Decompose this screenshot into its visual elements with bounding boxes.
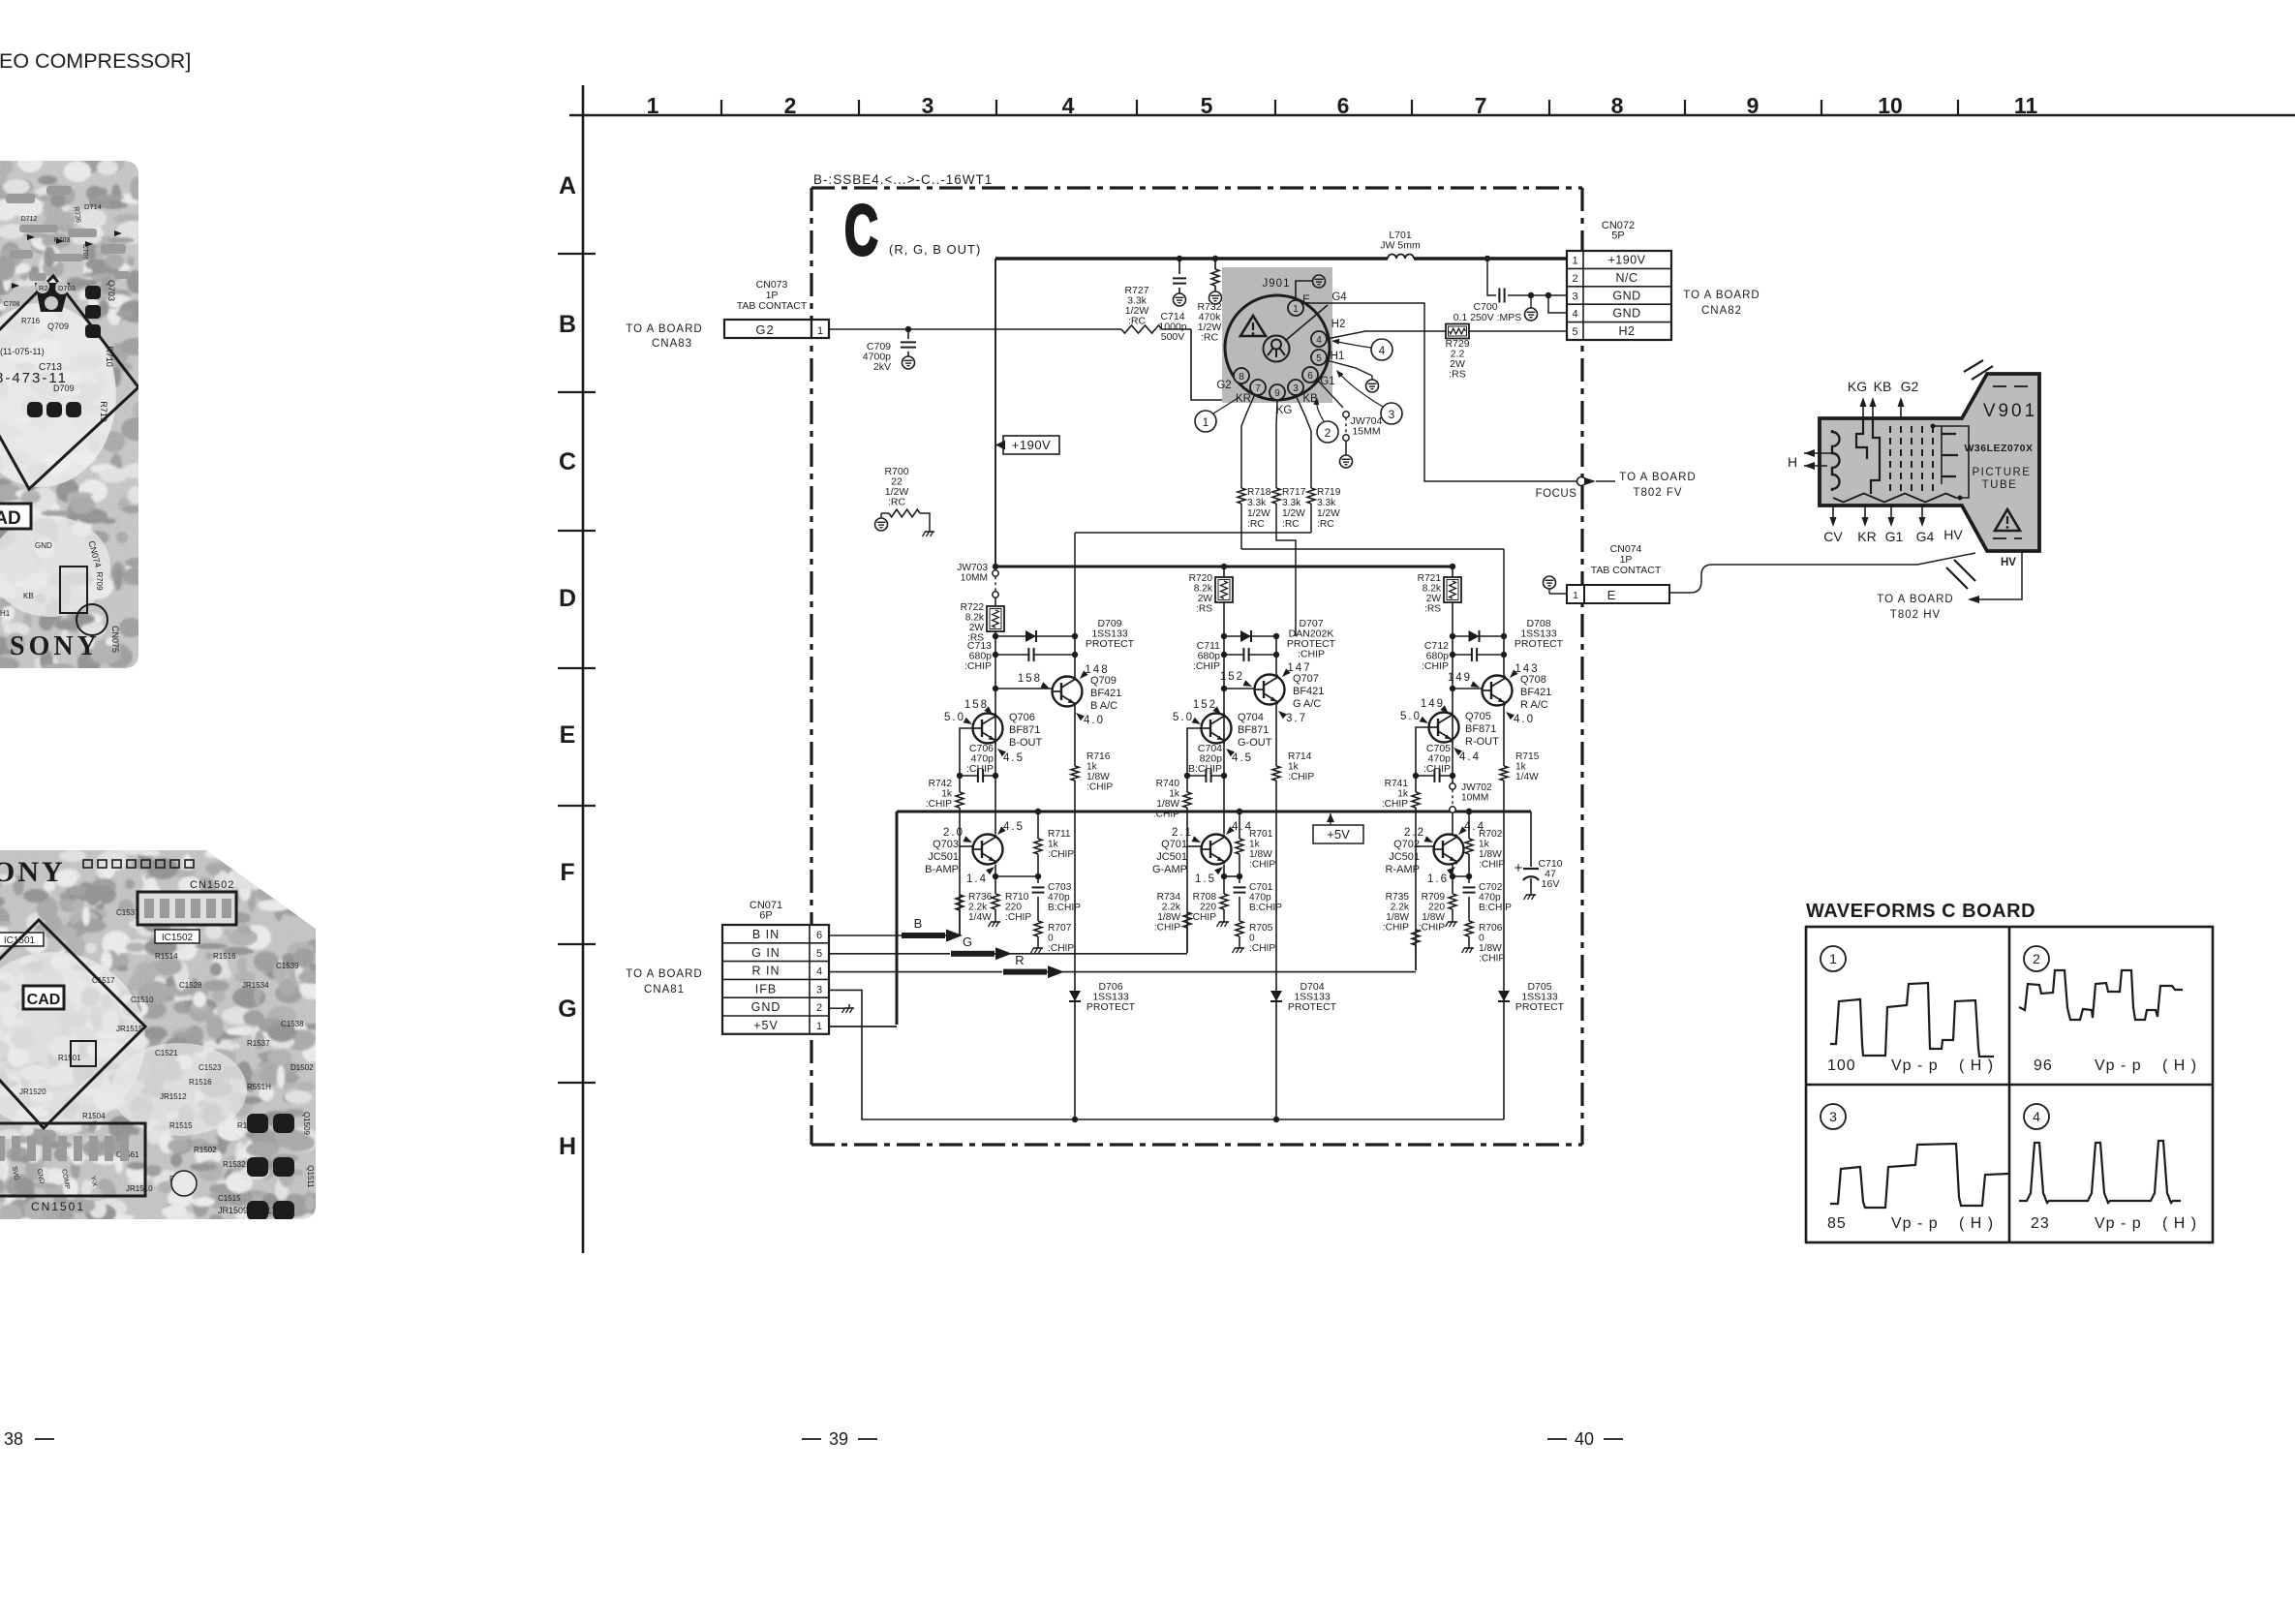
svg-text:1/4W: 1/4W xyxy=(1515,772,1539,782)
svg-text:G-OUT: G-OUT xyxy=(1238,737,1272,749)
CRT socket J901 xyxy=(1222,267,1332,403)
svg-text::CHIP: :CHIP xyxy=(1249,943,1275,954)
svg-text:TO A BOARD: TO A BOARD xyxy=(626,323,702,335)
jumper JW702 xyxy=(1450,782,1492,812)
svg-text:C702: C702 xyxy=(1479,882,1503,893)
svg-text:FOCUS: FOCUS xyxy=(1536,488,1577,500)
svg-text:R719: R719 xyxy=(99,401,108,422)
node on bus at C714 xyxy=(1177,256,1182,261)
svg-text:1: 1 xyxy=(1203,415,1209,429)
pin label KB xyxy=(1302,393,1318,405)
svg-text:16V: 16V xyxy=(1542,878,1560,890)
svg-text:R722: R722 xyxy=(961,602,985,613)
pin label H2 xyxy=(1331,319,1346,330)
svg-text:R242 D703: R242 D703 xyxy=(39,284,76,292)
resistor R721 xyxy=(1418,567,1461,636)
resistor R715 xyxy=(1500,751,1540,782)
svg-text:8.2k: 8.2k xyxy=(965,613,985,624)
svg-text::CHIP: :CHIP xyxy=(1193,660,1220,672)
svg-text:0: 0 xyxy=(1048,934,1054,944)
wire: B IN signal xyxy=(829,916,963,942)
svg-text:2.0: 2.0 xyxy=(943,827,964,839)
svg-text:5.0: 5.0 xyxy=(1400,711,1422,722)
board C outline (dash-dot border) xyxy=(811,188,1582,1145)
waveform cell 4 marker xyxy=(2024,1104,2049,1129)
wire: Q703 base lead xyxy=(960,846,973,935)
resistor R709 xyxy=(1419,876,1457,934)
svg-text:148: 148 xyxy=(1085,664,1109,676)
svg-text:2: 2 xyxy=(1572,273,1577,285)
svg-text:R706: R706 xyxy=(1479,923,1503,934)
svg-text::RC: :RC xyxy=(1317,519,1334,530)
page title text [VIDEO COMPRESSOR] xyxy=(0,49,191,73)
svg-text:4: 4 xyxy=(1379,344,1386,357)
resistor R722 xyxy=(961,598,1004,644)
wire: Q702 emitter to sub column xyxy=(1450,865,1472,879)
svg-text:KG: KG xyxy=(1848,379,1867,394)
svg-text:TO A BOARD: TO A BOARD xyxy=(1683,290,1759,301)
svg-text:R1515: R1515 xyxy=(169,1121,193,1130)
resistor R702 xyxy=(1465,809,1505,876)
svg-text:CNA82: CNA82 xyxy=(1701,305,1742,317)
svg-text:152: 152 xyxy=(1220,671,1244,683)
svg-text:G: G xyxy=(558,996,576,1023)
svg-text:R1504: R1504 xyxy=(82,1112,106,1120)
svg-text:3: 3 xyxy=(1293,383,1299,394)
svg-text:C1528: C1528 xyxy=(179,981,202,990)
svg-text:G IN: G IN xyxy=(751,946,780,960)
svg-text:C701: C701 xyxy=(1249,882,1273,893)
svg-text:CN1502: CN1502 xyxy=(190,879,234,891)
svg-text:JW 5mm: JW 5mm xyxy=(1380,240,1421,252)
svg-text:8-473-11: 8-473-11 xyxy=(0,370,68,386)
svg-text:10MM: 10MM xyxy=(1461,793,1488,804)
wire KR from socket pin 7 xyxy=(1241,394,1255,485)
svg-text:1k: 1k xyxy=(1048,840,1059,850)
svg-text:H: H xyxy=(1788,454,1797,470)
wire H1 to ground xyxy=(1327,360,1379,392)
svg-text:JW702: JW702 xyxy=(1461,782,1492,793)
svg-text::CHIP: :CHIP xyxy=(1382,799,1408,810)
svg-text:IC1502: IC1502 xyxy=(162,933,194,943)
svg-text:(11-075-11): (11-075-11) xyxy=(0,347,45,356)
resistor R720 xyxy=(1189,567,1233,636)
net label +190V xyxy=(995,436,1059,454)
key pointer line to pin 1 xyxy=(1285,305,1328,341)
svg-text:(R, G, B OUT): (R, G, B OUT) xyxy=(889,242,981,257)
svg-text:0: 0 xyxy=(1249,934,1255,944)
svg-text:3.7: 3.7 xyxy=(1286,713,1307,724)
svg-text::CHIP: :CHIP xyxy=(966,763,994,775)
svg-text::CHIP: :CHIP xyxy=(926,799,952,810)
picture tube V901 xyxy=(1788,360,2039,589)
resistor R707 xyxy=(1031,921,1075,954)
svg-text:1/8W: 1/8W xyxy=(1156,799,1179,810)
capacitor C706 xyxy=(957,743,998,782)
svg-text::RC: :RC xyxy=(1247,519,1265,530)
wire: G4 to FOCUS (T802 FV) xyxy=(1303,303,1576,481)
svg-text:C708: C708 xyxy=(4,301,20,308)
capacitor C703 xyxy=(1032,876,1082,921)
svg-text:Q705: Q705 xyxy=(1465,711,1491,722)
svg-text:1k: 1k xyxy=(1397,789,1409,800)
svg-text:8: 8 xyxy=(1611,93,1624,118)
svg-text:85: 85 xyxy=(1827,1215,1847,1232)
svg-text:B-:SSBE4.<...>-C..-16WT1: B-:SSBE4.<...>-C..-16WT1 xyxy=(813,172,993,187)
transistor Q708 xyxy=(1448,663,1552,725)
resistor R732 xyxy=(1197,259,1221,344)
svg-text:2kV: 2kV xyxy=(873,361,891,373)
svg-text:C1521: C1521 xyxy=(155,1049,178,1057)
svg-text:CAD: CAD xyxy=(27,992,61,1008)
svg-text:0.1 250V :MPS: 0.1 250V :MPS xyxy=(1453,312,1522,323)
svg-text:BF421: BF421 xyxy=(1293,686,1324,697)
svg-text:1/2W: 1/2W xyxy=(1247,508,1270,519)
svg-text::CHIP: :CHIP xyxy=(1048,849,1074,860)
svg-text:C703: C703 xyxy=(1048,882,1072,893)
svg-text:R717: R717 xyxy=(1282,487,1306,498)
svg-text:470p: 470p xyxy=(1249,893,1271,904)
svg-text:6P: 6P xyxy=(759,910,772,922)
test point circle 4 xyxy=(1331,338,1392,360)
svg-text:Q1511: Q1511 xyxy=(306,1165,315,1188)
svg-text:4: 4 xyxy=(816,966,822,978)
svg-text:4.4: 4.4 xyxy=(1459,751,1481,763)
svg-text:R-OUT: R-OUT xyxy=(1465,736,1499,748)
svg-text:( H ): ( H ) xyxy=(2162,1215,2197,1232)
svg-text:6: 6 xyxy=(816,930,822,941)
resistor R701 xyxy=(1236,809,1275,876)
svg-text:4: 4 xyxy=(1572,309,1577,321)
svg-text:R716: R716 xyxy=(21,317,41,325)
resistor R717 xyxy=(1272,485,1306,533)
svg-text:Vp - p: Vp - p xyxy=(1891,1215,1939,1232)
svg-text:470p: 470p xyxy=(1048,893,1070,904)
connector CN073 G2 box xyxy=(724,320,829,338)
diode D707 xyxy=(1221,618,1336,660)
resistor R700 xyxy=(875,466,935,536)
svg-text:158: 158 xyxy=(964,699,989,711)
svg-text:B:CHIP: B:CHIP xyxy=(1188,763,1222,775)
waveform 2 trace xyxy=(2019,970,2183,1020)
svg-text:H2: H2 xyxy=(1619,324,1636,338)
svg-text:2: 2 xyxy=(784,93,797,118)
svg-text:500V: 500V xyxy=(1161,331,1185,343)
svg-text:JW703: JW703 xyxy=(957,563,988,573)
resistor R742 xyxy=(926,776,964,846)
svg-text:2.2k: 2.2k xyxy=(968,903,988,913)
svg-text:TO A BOARD: TO A BOARD xyxy=(626,968,702,980)
svg-text:R702: R702 xyxy=(1479,829,1503,840)
svg-text:4: 4 xyxy=(1062,93,1075,118)
svg-text:1/4W: 1/4W xyxy=(968,912,992,923)
PCB photo 2 (bottom-left board photograph) xyxy=(0,841,329,1346)
svg-text:5: 5 xyxy=(1201,93,1213,118)
board code text B-:SSBE4 xyxy=(813,172,993,187)
svg-text:TAB CONTACT: TAB CONTACT xyxy=(737,300,808,312)
page number 38 xyxy=(4,1429,54,1449)
svg-text::CHIP: :CHIP xyxy=(1479,860,1505,871)
svg-text:1: 1 xyxy=(647,93,659,118)
svg-text:T802 FV: T802 FV xyxy=(1633,487,1682,499)
svg-text:1k: 1k xyxy=(1288,762,1300,773)
waveform 3 trace xyxy=(1830,1144,2008,1208)
svg-text:10MM: 10MM xyxy=(961,573,988,584)
svg-text:C1539: C1539 xyxy=(276,962,299,970)
svg-text:KR: KR xyxy=(1236,393,1251,405)
svg-text:+5V: +5V xyxy=(753,1019,779,1032)
svg-text:W36LEZ070X: W36LEZ070X xyxy=(1965,443,2034,454)
svg-text:8.2k: 8.2k xyxy=(1194,584,1213,595)
svg-text::CHIP: :CHIP xyxy=(1423,763,1451,775)
svg-text:BF421: BF421 xyxy=(1090,688,1121,699)
svg-text:15MM: 15MM xyxy=(1352,426,1380,438)
wire: 190V feed line (y585) xyxy=(993,564,1455,569)
svg-text:TAB CONTACT: TAB CONTACT xyxy=(1591,565,1662,576)
svg-text:2: 2 xyxy=(2033,951,2040,966)
svg-text:3.3k: 3.3k xyxy=(1282,498,1301,508)
svg-text:8: 8 xyxy=(1239,372,1244,383)
svg-text:4: 4 xyxy=(1316,335,1322,346)
svg-text:E: E xyxy=(1607,588,1616,602)
svg-text:PROTECT: PROTECT xyxy=(1515,1001,1565,1013)
svg-text::RC: :RC xyxy=(1282,519,1300,530)
svg-text:Q703: Q703 xyxy=(107,280,116,301)
diode D706 xyxy=(1069,981,1136,1119)
svg-text:GND: GND xyxy=(1612,289,1640,302)
jumper JW703 xyxy=(957,563,998,598)
resistor R729 xyxy=(1445,324,1469,381)
waveform 3 value 85 Vp-p (H) xyxy=(1827,1215,1994,1232)
svg-text:SONY: SONY xyxy=(10,631,101,661)
svg-text:B: B xyxy=(559,311,576,338)
svg-text:PROTECT: PROTECT xyxy=(1515,638,1564,650)
svg-text:10: 10 xyxy=(1878,93,1903,118)
svg-text:F: F xyxy=(560,859,574,886)
svg-text:( H ): ( H ) xyxy=(1959,1057,1994,1074)
wire: KG feed line xyxy=(1276,533,1296,636)
svg-text:PROTECT: PROTECT xyxy=(1288,1001,1337,1013)
svg-text:CV: CV xyxy=(1823,529,1843,544)
wire: R column right vertical xyxy=(1503,636,1505,986)
wire: R IN signal xyxy=(829,953,1416,978)
capacitor C700 xyxy=(1453,259,1567,323)
svg-text:C1537: C1537 xyxy=(116,908,139,917)
svg-text:152: 152 xyxy=(1193,699,1217,711)
svg-text:1.5: 1.5 xyxy=(1195,873,1216,885)
svg-text:GND: GND xyxy=(751,1000,781,1014)
svg-text:+190V: +190V xyxy=(1608,254,1646,267)
CRT socket pin 6 xyxy=(1302,367,1318,383)
node on bus at 1536 xyxy=(1484,256,1490,261)
svg-text:G2: G2 xyxy=(755,322,774,337)
wire: CN074 to picture tube xyxy=(1669,553,1975,593)
svg-text:B A/C: B A/C xyxy=(1090,700,1117,712)
svg-text:23: 23 xyxy=(2031,1215,2050,1232)
svg-text:C706: C706 xyxy=(81,244,88,260)
svg-text:G2: G2 xyxy=(1216,380,1231,391)
svg-text:N/C: N/C xyxy=(1615,271,1637,285)
svg-text:JR1520: JR1520 xyxy=(19,1088,46,1096)
wire: Q702 base lead xyxy=(1416,846,1434,970)
svg-text:3: 3 xyxy=(816,984,822,996)
svg-text:D1502: D1502 xyxy=(291,1063,314,1072)
svg-text:7: 7 xyxy=(1475,93,1487,118)
page number 39 xyxy=(802,1429,877,1449)
svg-text:11: 11 xyxy=(2014,93,2038,118)
ground at C700 (MPS) xyxy=(1525,295,1538,321)
capacitor C710 xyxy=(1515,812,1563,900)
svg-text:HV: HV xyxy=(1943,527,1963,542)
inductor L701 xyxy=(1380,230,1421,259)
svg-text:H1: H1 xyxy=(1331,351,1345,362)
svg-text::CHIP: :CHIP xyxy=(1190,912,1216,923)
svg-text:149: 149 xyxy=(1421,698,1445,710)
svg-text:R1537: R1537 xyxy=(247,1039,270,1048)
node FOCUS terminal xyxy=(1536,477,1586,501)
waveform 2 value 96 Vp-p (H) xyxy=(2034,1057,2197,1074)
svg-text:D712: D712 xyxy=(21,216,38,223)
svg-text:CN075: CN075 xyxy=(110,626,120,653)
jumper JW704 xyxy=(1317,380,1382,468)
svg-text:JR1509 C1517: JR1509 C1517 xyxy=(218,1206,276,1215)
svg-text:C1538: C1538 xyxy=(281,1020,304,1028)
CRT socket pin 1 xyxy=(1288,300,1303,316)
waveform 1 value 100 Vp-p (H) xyxy=(1827,1057,1994,1074)
svg-text:D714: D714 xyxy=(84,202,102,211)
svg-text:220: 220 xyxy=(1428,903,1445,913)
resistor R716 xyxy=(1071,751,1113,793)
svg-text:1/2W: 1/2W xyxy=(1282,508,1305,519)
CRT socket pin 5 xyxy=(1311,350,1327,365)
svg-text::RS: :RS xyxy=(1449,369,1466,381)
node label TO A BOARD CNA83 xyxy=(626,323,702,350)
svg-text:1/8W: 1/8W xyxy=(1479,943,1502,954)
svg-text:R720: R720 xyxy=(1189,573,1213,584)
node label TO A BOARD CNA81 xyxy=(626,968,702,996)
diode D709 xyxy=(993,618,1135,650)
svg-text:R IN: R IN xyxy=(752,965,780,978)
svg-text:3: 3 xyxy=(922,93,934,118)
connector CN073 label xyxy=(737,279,808,312)
svg-text:4: 4 xyxy=(2033,1109,2040,1124)
resistor R718 xyxy=(1238,485,1271,549)
resistor R714 xyxy=(1272,751,1314,782)
waveform cell 3 marker xyxy=(1821,1104,1846,1129)
svg-text:158: 158 xyxy=(1018,673,1042,685)
wire: Q705 base feedback xyxy=(1416,727,1429,776)
waveforms table title xyxy=(1806,901,2035,922)
resistor R727 xyxy=(1121,285,1162,333)
svg-text:R1532: R1532 xyxy=(223,1160,246,1169)
svg-text:R735: R735 xyxy=(1386,892,1410,903)
pin label KG xyxy=(1276,405,1293,416)
svg-text:B:CHIP: B:CHIP xyxy=(1479,903,1512,913)
CRT socket pin 3 xyxy=(1288,380,1303,395)
svg-text:R1501: R1501 xyxy=(58,1054,81,1062)
wire: Q706 base feedback xyxy=(960,728,973,776)
wire: KR feed line (y567) xyxy=(1241,549,1504,636)
svg-text:220: 220 xyxy=(1005,903,1022,913)
svg-text:5: 5 xyxy=(816,948,822,960)
svg-text:G4: G4 xyxy=(1916,529,1935,544)
connector CN072 xyxy=(1567,251,1671,340)
resistor R735 xyxy=(1383,892,1420,970)
svg-text:G1: G1 xyxy=(1885,529,1904,544)
transistor Q706 xyxy=(944,699,1043,764)
svg-text:D: D xyxy=(559,585,576,612)
svg-text:R1514: R1514 xyxy=(155,952,178,961)
svg-text:Q703: Q703 xyxy=(933,839,959,850)
svg-text:TO A BOARD: TO A BOARD xyxy=(1619,472,1696,483)
svg-text::CHIP: :CHIP xyxy=(1048,943,1074,954)
svg-text:GND: GND xyxy=(1612,307,1640,321)
svg-text:R715: R715 xyxy=(1515,751,1540,762)
svg-text:1/8W: 1/8W xyxy=(1249,849,1272,860)
transistor Q705 xyxy=(1400,698,1499,763)
svg-text:KR: KR xyxy=(1857,529,1876,544)
svg-text:KG: KG xyxy=(1276,405,1293,416)
svg-text:0: 0 xyxy=(1479,934,1484,944)
svg-text:+5V: +5V xyxy=(1327,827,1350,842)
svg-text:5: 5 xyxy=(1316,353,1322,364)
wire: base of Q708 xyxy=(1450,686,1483,691)
wire: base of Q707 xyxy=(1221,686,1255,691)
svg-text:IFB: IFB xyxy=(755,982,777,996)
svg-text:149: 149 xyxy=(1448,672,1472,684)
wire KB from socket pin 3 xyxy=(1296,395,1311,485)
svg-text:4.5: 4.5 xyxy=(1003,752,1025,764)
svg-text:6: 6 xyxy=(1307,371,1313,382)
svg-text:G2: G2 xyxy=(1901,379,1919,394)
node on bus at R732 xyxy=(1212,256,1218,261)
wire: KB feed line (y550) xyxy=(1075,533,1311,636)
svg-text:Q707: Q707 xyxy=(1293,673,1319,685)
svg-text:PROTECT: PROTECT xyxy=(1086,1001,1136,1013)
ground at CN074 xyxy=(1544,576,1568,594)
resistor R708 xyxy=(1190,876,1229,927)
svg-text::RS: :RS xyxy=(1424,604,1441,615)
svg-text:CNA81: CNA81 xyxy=(644,984,685,996)
ruler: top horizontal scale line xyxy=(569,93,2295,118)
svg-text:R703: R703 xyxy=(54,237,71,244)
svg-text:A: A xyxy=(559,172,576,199)
svg-text:1/8W: 1/8W xyxy=(1386,912,1409,923)
svg-text:220: 220 xyxy=(1200,903,1216,913)
svg-text::CHIP: :CHIP xyxy=(1154,923,1180,934)
test point circle 1 xyxy=(1195,397,1239,432)
svg-text:TO A BOARD: TO A BOARD xyxy=(1877,594,1953,605)
svg-text:2.1: 2.1 xyxy=(1172,827,1193,839)
svg-text:R740: R740 xyxy=(1156,779,1180,789)
svg-text:AD: AD xyxy=(0,508,21,529)
resistor R705 xyxy=(1233,921,1276,954)
svg-text::CHIP: :CHIP xyxy=(1249,860,1275,871)
svg-text:1: 1 xyxy=(1572,256,1577,267)
svg-text:4.5: 4.5 xyxy=(1232,752,1253,764)
page number 40 xyxy=(1547,1429,1623,1449)
svg-text:C1523: C1523 xyxy=(199,1063,222,1072)
waveform 4 value 23 Vp-p (H) xyxy=(2031,1215,2197,1232)
capacitor C714 xyxy=(1158,259,1186,343)
svg-text:Q709: Q709 xyxy=(47,322,69,331)
svg-text:5P: 5P xyxy=(1611,230,1624,242)
net label +5V xyxy=(1313,813,1363,843)
svg-text:H1: H1 xyxy=(0,609,11,618)
svg-text:B-AMP: B-AMP xyxy=(925,864,959,875)
svg-text:470p: 470p xyxy=(1479,893,1501,904)
pin label G1 xyxy=(1320,376,1334,387)
